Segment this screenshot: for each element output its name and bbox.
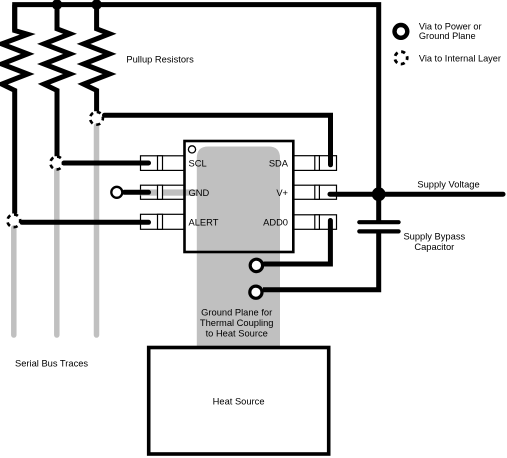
wire V+ to supply node bbox=[330, 192, 379, 197]
svg-text:Pullup Resistors: Pullup Resistors bbox=[126, 54, 194, 64]
IC U1 body fill bbox=[185, 141, 294, 252]
svg-text:ADD0: ADD0 bbox=[263, 217, 288, 227]
heat source box bbox=[149, 348, 329, 455]
node junction R3 / top bus bbox=[91, 0, 101, 10]
legend via to internal layer symbol bbox=[395, 52, 407, 64]
capacitor C1 (supply bypass) bottom plate bbox=[359, 229, 398, 233]
resistor R1 (pullup) bbox=[2, 5, 28, 214]
svg-text:to Heat Source: to Heat Source bbox=[206, 328, 268, 338]
svg-text:Thermal Coupling: Thermal Coupling bbox=[200, 318, 274, 328]
via to internal layer (R2/SCL) bbox=[50, 157, 63, 170]
pad ADD0 (right) bbox=[293, 215, 336, 230]
capacitor C1 (supply bypass) top plate bbox=[359, 220, 398, 224]
svg-text:Ground Plane: Ground Plane bbox=[419, 31, 476, 41]
via to internal layer (R3/SDA) bbox=[90, 112, 103, 125]
serial bus trace 1 (gray, ALERT) bbox=[11, 228, 17, 335]
node junction R2 / top bus bbox=[52, 0, 62, 10]
legend via to power or ground plane symbol bbox=[395, 25, 408, 38]
resistor R3 (pullup) bbox=[84, 5, 110, 112]
pad SDA (right) bbox=[293, 156, 336, 171]
svg-text:SDA: SDA bbox=[269, 159, 289, 169]
pad divider ALERT bbox=[158, 214, 163, 229]
pad GND (left) bbox=[141, 185, 185, 199]
pad ALERT (left) bbox=[141, 214, 185, 229]
pad divider V+ bbox=[315, 185, 320, 199]
pin 1 marker U1 bbox=[188, 146, 195, 153]
wire SCL (via to pad) bbox=[64, 161, 149, 166]
pad divider SDA bbox=[315, 156, 320, 171]
ground trace GND (gray band to plane) bbox=[141, 189, 203, 195]
svg-text:Via to Power or: Via to Power or bbox=[419, 22, 482, 32]
pad V+ (right) bbox=[293, 185, 336, 199]
node supply junction bbox=[372, 187, 386, 201]
svg-text:Supply Voltage: Supply Voltage bbox=[417, 179, 479, 189]
svg-text:ALERT: ALERT bbox=[189, 217, 219, 227]
via to ground plane (GND pin) bbox=[111, 187, 122, 198]
pad SCL (left) bbox=[141, 156, 185, 171]
wire ADD0 strap (pad to via) bbox=[265, 221, 331, 265]
svg-text:Heat Source: Heat Source bbox=[213, 396, 265, 406]
svg-text:GND: GND bbox=[189, 188, 210, 198]
pad divider SCL bbox=[158, 156, 163, 171]
via to power plane (supply return) bbox=[250, 286, 262, 298]
wire ALERT (via to pad) bbox=[22, 220, 149, 225]
svg-text:SCL: SCL bbox=[189, 159, 207, 169]
wire SDA (via to pad) bbox=[105, 115, 331, 165]
wire GND (via to pad) bbox=[125, 190, 149, 195]
ground plane strip (thermal coupling) bbox=[197, 147, 280, 348]
wire top supply bus bbox=[15, 5, 379, 221]
wire supply voltage (to right edge) bbox=[379, 192, 503, 197]
wire supply return (cap to via) bbox=[263, 233, 379, 290]
serial bus trace 2 (gray, SCL) bbox=[54, 171, 60, 336]
serial bus trace 3 (gray, SDA) bbox=[94, 126, 100, 335]
pad divider GND bbox=[158, 185, 163, 199]
via to internal layer (R1/ALERT) bbox=[7, 214, 20, 227]
svg-text:Ground Plane for: Ground Plane for bbox=[201, 308, 272, 318]
via to power plane (ADD0 strap) bbox=[250, 259, 262, 271]
svg-text:Supply Bypass: Supply Bypass bbox=[403, 231, 465, 241]
IC U1 border bbox=[185, 141, 294, 252]
svg-text:Capacitor: Capacitor bbox=[414, 242, 454, 252]
svg-text:V+: V+ bbox=[276, 188, 288, 198]
resistor R2 (pullup) bbox=[44, 5, 70, 157]
pad divider ADD0 bbox=[315, 215, 320, 230]
svg-text:Via to Internal Layer: Via to Internal Layer bbox=[419, 53, 501, 63]
svg-text:Serial Bus Traces: Serial Bus Traces bbox=[15, 359, 88, 369]
